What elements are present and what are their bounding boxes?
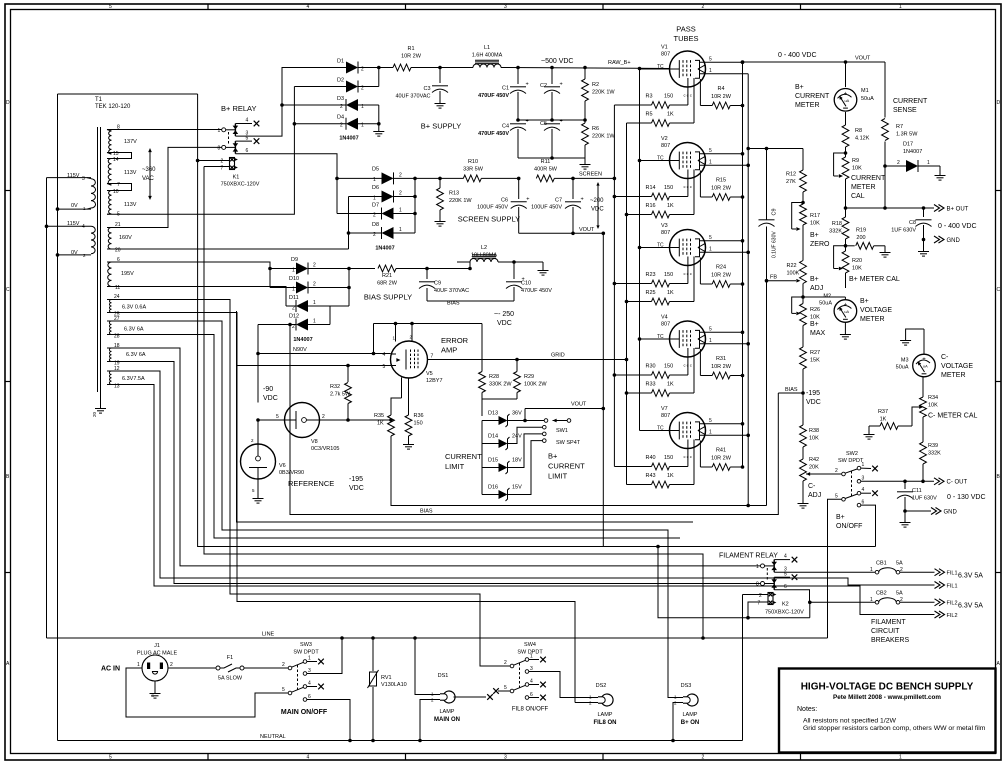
label B+ VOLTAGE METER: [860, 298, 892, 323]
relay K1 pole b: [218, 141, 239, 154]
svg-text:R19: R19: [856, 228, 866, 234]
capacitor C11: [897, 480, 937, 513]
svg-text:2.7k 5W: 2.7k 5W: [330, 392, 351, 398]
svg-text:100K 2W: 100K 2W: [524, 382, 547, 388]
svg-text:C7: C7: [555, 198, 562, 204]
svg-text:11: 11: [115, 285, 120, 291]
svg-text:1.6H 400MA: 1.6H 400MA: [472, 53, 503, 59]
svg-text:B+ ON: B+ ON: [681, 720, 700, 726]
svg-text:D1: D1: [337, 59, 344, 65]
svg-text:R8: R8: [855, 128, 862, 134]
relay K1 throw 6: [235, 148, 337, 214]
svg-text:C11: C11: [912, 488, 922, 494]
svg-text:+: +: [560, 82, 563, 88]
R42 ground: [798, 499, 809, 508]
svg-text:D14: D14: [488, 434, 498, 440]
svg-text:D12: D12: [289, 314, 299, 320]
resistor R29: [514, 358, 548, 399]
T1 secondary 6.3V 6A b: [107, 343, 146, 367]
wire V5 plate supply: [374, 322, 482, 354]
svg-text:K2: K2: [782, 602, 789, 608]
svg-text:B+ OUT: B+ OUT: [947, 207, 969, 213]
wire V8 row: [256, 414, 391, 422]
svg-text:5: 5: [709, 418, 712, 424]
svg-text:FILAMENT RELAY: FILAMENT RELAY: [719, 553, 778, 560]
svg-text:TEK 120-120: TEK 120-120: [95, 104, 131, 110]
svg-text:D4: D4: [337, 115, 344, 121]
wire pin8 to relay: [107, 129, 224, 131]
svg-text:VDC: VDC: [497, 320, 512, 327]
svg-text:C8: C8: [909, 220, 916, 226]
svg-text:1: 1: [709, 430, 712, 436]
svg-text:4: 4: [383, 352, 386, 358]
svg-text:1: 1: [862, 462, 865, 468]
label VOUT screen: [579, 227, 595, 233]
J1 ground: [150, 681, 161, 698]
pass tube V3: [657, 223, 748, 276]
svg-text:2: 2: [313, 263, 316, 269]
wire grid stopper bus: [625, 123, 629, 485]
resistor R43 (1K grid stopper): [627, 440, 695, 488]
svg-text:100K: 100K: [787, 271, 800, 277]
pass tube V7: [657, 406, 748, 459]
svg-text:R10: R10: [468, 159, 478, 165]
svg-text:+: +: [844, 303, 848, 309]
svg-text:1: 1: [927, 160, 930, 166]
wire limit to vout: [523, 409, 527, 423]
svg-text:V8: V8: [311, 439, 318, 445]
switch SW3: [282, 642, 324, 701]
resistor R27: [800, 347, 821, 393]
svg-text:2: 2: [313, 282, 316, 288]
svg-text:+: +: [526, 82, 529, 88]
svg-text:20: 20: [115, 248, 121, 254]
svg-text:5A: 5A: [896, 591, 903, 597]
svg-text:VDC: VDC: [591, 207, 604, 213]
wire K2 coil 2 feed: [743, 594, 763, 596]
svg-text:CURRENT: CURRENT: [548, 462, 585, 471]
svg-text:GRID: GRID: [551, 353, 565, 359]
svg-text:4: 4: [784, 554, 787, 560]
svg-text:15K: 15K: [810, 358, 820, 364]
svg-text:5: 5: [383, 364, 386, 370]
svg-text:+: +: [922, 357, 926, 363]
svg-text:R15: R15: [716, 178, 726, 184]
svg-text:LIMIT: LIMIT: [548, 472, 568, 481]
svg-text:1UF 630V: 1UF 630V: [891, 228, 916, 234]
svg-text:5: 5: [709, 148, 712, 154]
label PASS TUBES: [673, 25, 698, 44]
svg-text:4: 4: [530, 679, 533, 685]
wire D-out to R1: [379, 67, 393, 69]
label VOUT mid: [571, 402, 587, 408]
title block box: [779, 669, 996, 753]
svg-text:7: 7: [431, 354, 434, 360]
svg-text:R6: R6: [592, 126, 599, 132]
svg-text:C- OUT: C- OUT: [947, 480, 968, 486]
label FILAMENT CIRCUIT BREAKERS: [871, 619, 909, 644]
svg-text:V1: V1: [661, 45, 668, 51]
svg-text:HIGH-VOLTAGE DC BENCH SUPPLY: HIGH-VOLTAGE DC BENCH SUPPLY: [801, 682, 974, 693]
svg-text:V2: V2: [661, 136, 668, 142]
svg-text:+: +: [844, 92, 848, 98]
svg-text:5: 5: [709, 235, 712, 241]
switch SW2: [835, 451, 934, 507]
wire grid rail: [482, 358, 628, 362]
diode D3: [282, 96, 379, 111]
svg-text:LINE: LINE: [262, 632, 275, 638]
svg-text:R20: R20: [852, 258, 862, 264]
lamp DS1: [431, 673, 460, 723]
svg-text:1K: 1K: [377, 421, 384, 427]
label CURRENT LIMIT: [445, 452, 482, 471]
svg-text:220K 1W: 220K 1W: [592, 90, 615, 96]
zener D15: [482, 434, 543, 474]
svg-text:3: 3: [504, 4, 507, 10]
T1 secondary 113V b: [107, 189, 137, 218]
svg-text:113V: 113V: [124, 202, 137, 208]
svg-text:Grid stopper resistors carbon: Grid stopper resistors carbon comp, othe…: [803, 725, 986, 732]
svg-text:D: D: [997, 100, 1001, 106]
svg-text:1: 1: [137, 662, 140, 668]
svg-text:R4: R4: [717, 86, 724, 92]
svg-text:150: 150: [664, 94, 673, 100]
T1 secondary 6.3V 0.6A: [107, 294, 146, 318]
svg-text:D5: D5: [372, 167, 379, 173]
svg-text:VOUT: VOUT: [855, 56, 871, 62]
svg-text:VDC: VDC: [806, 399, 821, 406]
svg-text:VOLTAGE: VOLTAGE: [860, 307, 892, 314]
wire N90V: [256, 347, 373, 355]
zener D13: [482, 411, 544, 428]
svg-text:C- METER CAL: C- METER CAL: [928, 413, 978, 420]
wire V5 grid in lower: [389, 365, 392, 367]
svg-text:750XBXC-120V: 750XBXC-120V: [221, 182, 260, 188]
resistor R3 (150 screen stopper): [614, 78, 688, 108]
svg-text:6.3V7.5A: 6.3V7.5A: [122, 376, 145, 382]
svg-text:-90: -90: [263, 386, 273, 393]
svg-text:10: 10: [113, 189, 119, 195]
wire pin27 bus: [107, 321, 677, 698]
svg-text:7: 7: [117, 182, 120, 188]
GND arrow 2: [931, 508, 958, 516]
pot R9: [834, 153, 863, 208]
wire SW2 pole5 feed: [828, 499, 842, 638]
svg-text:R40: R40: [646, 455, 656, 461]
wire DS3 pin2: [671, 703, 683, 743]
switch SW4: [493, 642, 546, 700]
svg-text:AMP: AMP: [441, 346, 457, 355]
svg-text:1: 1: [870, 597, 873, 603]
svg-text:2: 2: [702, 755, 705, 761]
svg-text:150: 150: [664, 455, 673, 461]
svg-text:VOLTAGE: VOLTAGE: [941, 363, 973, 370]
svg-text:C1: C1: [502, 86, 509, 92]
svg-text:5: 5: [109, 755, 112, 761]
svg-text:B+ SUPPLY: B+ SUPPLY: [421, 122, 462, 131]
svg-text:C: C: [6, 287, 10, 293]
fuse F1: [216, 655, 288, 682]
svg-text:10K: 10K: [810, 221, 820, 227]
svg-text:5: 5: [784, 572, 787, 578]
relay K1 label: [221, 175, 260, 188]
D1-D4 part number: [339, 136, 358, 142]
svg-text:4.12K: 4.12K: [855, 136, 870, 142]
label 0-400 VDC out: [938, 223, 977, 230]
svg-text:1: 1: [709, 338, 712, 344]
svg-text:R2: R2: [592, 82, 599, 88]
relay K2 throw 5: [774, 572, 797, 581]
svg-text:195V: 195V: [121, 271, 134, 277]
resistor R37: [864, 409, 913, 439]
wire primary feeds: [45, 94, 91, 741]
label C- ADJ: [808, 483, 821, 499]
label C- VOLTAGE METER: [941, 354, 973, 379]
wire current sense drop: [883, 62, 887, 210]
svg-text:LAMP: LAMP: [683, 712, 698, 718]
svg-text:D15: D15: [488, 458, 498, 464]
T1 shield ground: [92, 392, 106, 417]
svg-text:G: G: [151, 693, 154, 698]
svg-text:6.3V 5A: 6.3V 5A: [958, 573, 983, 580]
diode D11: [286, 295, 330, 312]
svg-text:C4: C4: [502, 124, 509, 130]
svg-text:1: 1: [218, 128, 221, 134]
svg-text:1: 1: [756, 564, 759, 570]
svg-text:R38: R38: [809, 428, 819, 434]
svg-text:0 - 130 VDC: 0 - 130 VDC: [947, 494, 986, 501]
svg-text:2: 2: [897, 160, 900, 166]
svg-text:1.3R 5W: 1.3R 5W: [896, 132, 918, 138]
svg-text:18V: 18V: [512, 458, 522, 464]
svg-text:0B3/VR90: 0B3/VR90: [279, 470, 304, 476]
pot R34: [912, 377, 938, 442]
svg-text:R23: R23: [646, 272, 656, 278]
wire pin1 bus: [746, 74, 750, 506]
svg-text:uA: uA: [844, 310, 849, 314]
svg-text:332K: 332K: [829, 229, 842, 235]
svg-text:uA: uA: [923, 365, 928, 369]
svg-text:R1: R1: [407, 46, 414, 52]
varistor RV1: [368, 636, 407, 742]
svg-text:137V: 137V: [124, 139, 137, 145]
svg-text:C9: C9: [772, 208, 778, 215]
svg-text:R30: R30: [646, 364, 656, 370]
meter M1: [834, 60, 874, 111]
svg-text:FIL1: FIL1: [947, 571, 958, 577]
wire bias to V5 pin5: [237, 365, 391, 367]
wire vout mid rail: [525, 407, 605, 411]
resistor R36: [403, 413, 424, 449]
svg-text:1: 1: [399, 208, 402, 214]
svg-text:B+ METER CAL: B+ METER CAL: [849, 276, 900, 283]
label V5 12BY7: [426, 371, 443, 384]
svg-text:C5: C5: [540, 121, 547, 127]
svg-text:C2: C2: [540, 83, 547, 89]
relay K1 coil: [221, 158, 238, 172]
svg-text:1: 1: [870, 567, 873, 573]
svg-text:R37: R37: [878, 409, 888, 415]
svg-text:1K: 1K: [667, 473, 674, 479]
T1 primary winding P1: [67, 173, 96, 211]
wire reg top rail: [746, 147, 803, 151]
winding link 7-10: [107, 184, 132, 191]
svg-text:160V: 160V: [119, 235, 132, 241]
capacitor C2: [540, 66, 563, 120]
GND arrow: [934, 236, 961, 244]
label B+ METER CAL: [849, 276, 900, 283]
wire LINE rail: [47, 632, 828, 639]
svg-text:R16: R16: [646, 203, 656, 209]
svg-text:400R 5W: 400R 5W: [534, 167, 558, 173]
svg-text:~- 250: ~- 250: [494, 311, 514, 318]
svg-text:ERROR: ERROR: [441, 336, 469, 345]
plug J1: [101, 643, 177, 681]
svg-text:SW4: SW4: [524, 642, 536, 648]
capacitor C7: [531, 177, 584, 234]
svg-text:VOUT: VOUT: [579, 227, 595, 233]
svg-text:METER: METER: [860, 316, 885, 323]
svg-text:SW DPDT: SW DPDT: [838, 458, 864, 464]
svg-text:50uA: 50uA: [819, 301, 832, 307]
wire V5 cathodes: [391, 378, 409, 416]
svg-text:1N4007: 1N4007: [375, 246, 394, 252]
svg-text:R39: R39: [928, 443, 938, 449]
capacitor C9b: [419, 267, 469, 301]
svg-text:B+: B+: [810, 232, 819, 239]
C8 ground: [918, 240, 929, 257]
label ERROR AMP: [441, 336, 469, 355]
svg-text:+: +: [526, 197, 529, 203]
svg-text:BREAKERS: BREAKERS: [871, 637, 909, 644]
svg-text:D17: D17: [903, 142, 913, 148]
svg-text:~360: ~360: [142, 167, 156, 173]
wire D6-D8 feed riser: [347, 197, 351, 250]
wire pin18 bus: [107, 348, 763, 566]
capacitor C9: [759, 149, 778, 281]
label FILAMENT RELAY: [719, 553, 778, 560]
wire SW3 throw6: [307, 700, 352, 743]
svg-text:R35: R35: [374, 413, 384, 419]
svg-text:10R 2W: 10R 2W: [711, 364, 732, 370]
svg-text:CURRENT: CURRENT: [445, 452, 482, 461]
svg-text:6.3V 5A: 6.3V 5A: [958, 603, 983, 610]
svg-text:V5: V5: [426, 371, 433, 377]
svg-text:1: 1: [530, 654, 533, 660]
svg-text:5: 5: [246, 135, 249, 141]
svg-text:C-: C-: [808, 483, 816, 490]
svg-text:50uA: 50uA: [896, 365, 909, 371]
svg-text:Notes:: Notes:: [797, 706, 817, 713]
resistor R12: [786, 149, 806, 203]
svg-text:1: 1: [313, 300, 316, 306]
resistor R21: [349, 265, 470, 286]
svg-text:R32: R32: [330, 384, 340, 390]
T1 core: [98, 127, 101, 392]
svg-text:10K: 10K: [810, 315, 820, 321]
resistor R22 pot: [787, 261, 807, 298]
wire C11 rail: [905, 510, 931, 512]
svg-text:10K: 10K: [928, 403, 938, 409]
relay K1 throw 5: [235, 135, 259, 144]
resistor R6: [582, 120, 616, 158]
wire DS1 feeds: [413, 636, 493, 742]
resistor R33 (1K grid stopper): [627, 348, 695, 396]
svg-text:FB: FB: [770, 275, 777, 281]
svg-text:2: 2: [399, 191, 402, 197]
relay K1 pole a: [218, 124, 239, 137]
svg-text:D3: D3: [337, 96, 344, 102]
svg-text:R14: R14: [646, 185, 656, 191]
svg-text:10K: 10K: [809, 436, 819, 442]
meter M3: [896, 354, 936, 377]
svg-text:5: 5: [109, 4, 112, 10]
svg-text:F1: F1: [227, 655, 233, 661]
svg-text:1K: 1K: [667, 290, 674, 296]
wire DS2 pin2: [575, 702, 598, 704]
svg-text:1K: 1K: [667, 112, 674, 118]
wire pin6: [107, 262, 270, 269]
svg-text:R43: R43: [646, 473, 656, 479]
svg-text:V4: V4: [661, 315, 668, 321]
svg-text:470UF 450V: 470UF 450V: [478, 93, 509, 99]
meter M2: [803, 294, 857, 340]
svg-text:ADJ: ADJ: [810, 285, 823, 292]
svg-text:7: 7: [758, 601, 761, 607]
svg-text:R29: R29: [524, 374, 534, 380]
wire DS2 pin1: [577, 697, 599, 699]
T1 secondary 6.3V 6A a: [107, 316, 144, 340]
svg-text:LAMP: LAMP: [440, 709, 455, 715]
svg-text:0 - 400 VDC: 0 - 400 VDC: [938, 223, 977, 230]
svg-text:ON/OFF: ON/OFF: [836, 523, 862, 530]
FIL1 arrow a: [935, 569, 984, 580]
svg-text:FIL8 ON/OFF: FIL8 ON/OFF: [512, 707, 549, 713]
relay K1 dashed link: [228, 132, 230, 145]
zener D16: [482, 441, 543, 501]
label B+ CURRENT LIMIT: [548, 452, 585, 481]
svg-text:Pete Millett 2008 - www.pmille: Pete Millett 2008 - www.pmillett.com: [833, 694, 941, 701]
svg-text:FIL1: FIL1: [947, 584, 958, 590]
resistor R7: [882, 119, 919, 141]
svg-text:R9: R9: [852, 158, 859, 164]
relay K2 throw 4: [774, 554, 797, 563]
svg-text:MAIN ON/OFF: MAIN ON/OFF: [281, 709, 328, 716]
svg-text:6.3V 0.6A: 6.3V 0.6A: [122, 305, 146, 311]
wire screen stopper bus: [613, 105, 617, 467]
resistor R41 (10R 2W): [700, 441, 744, 471]
svg-text:1K: 1K: [667, 382, 674, 388]
diode D4: [294, 115, 378, 130]
svg-text:SENSE: SENSE: [893, 107, 917, 114]
wire bias rail A: [391, 281, 767, 508]
wire V6 top: [257, 420, 259, 444]
svg-text:N90V: N90V: [293, 347, 307, 353]
resistor R11: [534, 159, 615, 182]
resistor R25 (1K grid stopper): [627, 257, 695, 305]
svg-text:10R 2W: 10R 2W: [711, 94, 732, 100]
svg-text:VDC: VDC: [263, 395, 278, 402]
svg-text:B+: B+: [548, 452, 558, 461]
svg-text:L2: L2: [481, 245, 487, 251]
svg-text:AC IN: AC IN: [101, 666, 120, 673]
wire pin28 bus: [107, 335, 680, 539]
wire pin21 to relay: [107, 147, 224, 227]
svg-text:4: 4: [307, 4, 310, 10]
svg-text:3: 3: [504, 755, 507, 761]
diode D12: [258, 314, 330, 331]
svg-text:D13: D13: [488, 411, 498, 417]
